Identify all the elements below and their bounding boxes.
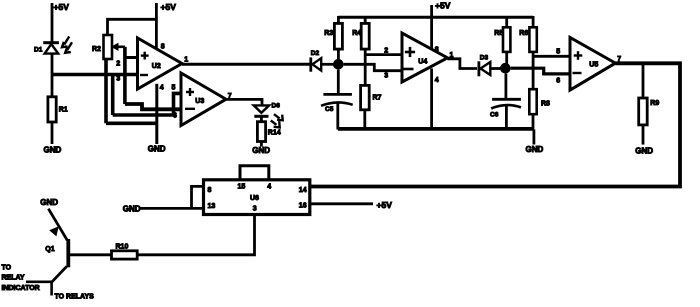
svg-text:R14: R14 — [268, 130, 281, 137]
svg-text:2: 2 — [116, 61, 120, 68]
op-amp U3 — [181, 73, 226, 126]
resistor R7 — [361, 85, 370, 109]
wiper arrow of R2 — [114, 45, 125, 48]
diode D3 — [477, 61, 480, 76]
wire to U2 pin2 — [125, 56, 137, 59]
wire U2 pin4 to GND — [155, 84, 158, 144]
wire rail stub to GND — [533, 130, 536, 145]
resistor R5 — [503, 27, 510, 52]
svg-text:4: 4 — [435, 77, 439, 84]
svg-text:5: 5 — [556, 48, 560, 55]
svg-text:D2: D2 — [311, 50, 320, 57]
wire node to U5 pin6 — [511, 68, 569, 74]
resistor R4 — [361, 23, 369, 49]
wire D3 to node — [490, 67, 501, 70]
wire V1 to GND line (H3) — [106, 122, 157, 126]
op-amp U2 — [138, 38, 183, 89]
wire node to U4 pin3 — [344, 64, 401, 70]
wire R1 to GND — [51, 122, 54, 144]
wire emitter to relay indicator — [26, 280, 53, 283]
wire D6 to R14 — [260, 116, 263, 121]
svg-text:R5: R5 — [494, 30, 503, 37]
svg-text:+5V: +5V — [54, 2, 70, 12]
svg-text:R3: R3 — [324, 30, 333, 37]
light arrows into D1 — [64, 37, 69, 45]
diode D2 — [309, 57, 312, 71]
svg-text:GND: GND — [44, 146, 62, 155]
resistor R9 — [642, 63, 645, 98]
wire V2 to U3 pin5 riser (H2) — [113, 93, 181, 115]
wire R9 to GND — [642, 125, 645, 145]
svg-text:U4: U4 — [418, 59, 427, 66]
svg-text:Q1: Q1 — [45, 246, 54, 253]
wire U4 pin4 down to rail — [430, 69, 433, 130]
IC U6 — [204, 180, 310, 215]
transistor Q1 — [48, 209, 67, 241]
wire emitter down to relays — [50, 282, 53, 296]
wire R8 to rail — [532, 114, 535, 129]
svg-text:D3: D3 — [480, 55, 489, 62]
svg-text:14: 14 — [299, 187, 307, 194]
wire V3 to U3 pin6 (H1) — [125, 104, 181, 109]
wire node to U2 pin3 (long line) — [52, 73, 137, 76]
wire D1 to R1 — [51, 54, 54, 97]
svg-text:5: 5 — [172, 85, 176, 92]
wire R5 leads — [505, 16, 508, 27]
potentiometer R2 — [104, 35, 113, 59]
wire R3 leads — [337, 16, 340, 23]
svg-text:+5V: +5V — [377, 200, 393, 210]
resistor R14 — [257, 122, 265, 142]
resistor R1 — [48, 97, 56, 122]
svg-text:15: 15 — [238, 184, 246, 191]
op-amp U5 — [570, 37, 615, 90]
svg-text:+5V: +5V — [435, 1, 451, 11]
node junction at D3 — [500, 63, 511, 74]
svg-text:GND: GND — [40, 198, 58, 207]
svg-text:R7: R7 — [373, 95, 382, 102]
wire pin16 to +5V — [310, 202, 373, 205]
svg-text:TO RELAYS: TO RELAYS — [55, 294, 95, 301]
svg-text:6: 6 — [556, 78, 560, 85]
wire U4 output to D3 — [448, 59, 478, 69]
svg-text:GND: GND — [148, 145, 166, 154]
wire R2 bottom down (V1) — [104, 59, 108, 123]
wire wiper down (V3) — [123, 47, 127, 104]
svg-text:D1: D1 — [34, 47, 43, 54]
svg-text:4: 4 — [267, 184, 271, 191]
svg-text:U5: U5 — [589, 62, 598, 69]
svg-text:INDICATOR: INDICATOR — [2, 285, 40, 292]
svg-text:8: 8 — [435, 46, 439, 53]
svg-text:3: 3 — [384, 73, 388, 80]
wire R4 top lead — [364, 16, 367, 23]
svg-text:R10: R10 — [116, 244, 129, 251]
svg-text:C5: C5 — [325, 106, 334, 113]
svg-text:GND: GND — [252, 146, 270, 155]
resistor R10 — [112, 251, 138, 259]
svg-text:8: 8 — [208, 187, 212, 194]
wire ground rail (middle) — [338, 127, 534, 131]
wire +5V to D1 — [51, 3, 54, 42]
photodiode D1 — [43, 41, 59, 44]
wire top +5V rail (middle) — [338, 16, 533, 19]
resistor R3 — [334, 23, 342, 49]
wire long line down (V2) — [111, 75, 115, 116]
svg-text:U6: U6 — [250, 195, 259, 202]
svg-text:R8: R8 — [541, 101, 550, 108]
wire +5V to U2 pin8 — [155, 3, 158, 49]
wire U2 output to D2 — [182, 63, 311, 66]
wire pin3 down and left to R10 — [137, 215, 254, 255]
wire U3 output to D6 — [226, 99, 262, 105]
svg-text:R1: R1 — [59, 107, 68, 114]
wire jumper pins 15-4 — [240, 166, 269, 180]
svg-text:R2: R2 — [92, 46, 101, 53]
svg-text:R6: R6 — [519, 30, 528, 37]
svg-text:6: 6 — [173, 113, 177, 120]
wire pin8 bracket — [192, 186, 204, 208]
svg-text:GND: GND — [123, 204, 141, 213]
wire R6 down to R8 — [532, 52, 535, 89]
wire U5 output right, down and to U6 pin14 — [310, 63, 680, 186]
wire R2 top to +5V rail — [108, 19, 157, 35]
svg-text:2: 2 — [384, 48, 388, 55]
svg-text:U3: U3 — [195, 98, 204, 105]
svg-text:TO: TO — [2, 264, 12, 271]
svg-text:16: 16 — [299, 203, 307, 210]
wire R7 to rail — [363, 110, 366, 130]
wire R10 to Q1 base — [70, 253, 112, 256]
svg-text:GND: GND — [635, 146, 653, 155]
svg-text:3: 3 — [116, 76, 120, 83]
wire GND to pin13 — [140, 207, 204, 210]
resistor R8 — [529, 89, 536, 114]
svg-text:1: 1 — [184, 57, 188, 64]
svg-text:3: 3 — [253, 206, 257, 213]
svg-text:C6: C6 — [490, 112, 499, 119]
svg-text:GND: GND — [526, 145, 544, 154]
wire D2 to node — [321, 63, 334, 66]
svg-text:D6: D6 — [272, 103, 281, 110]
svg-text:RELAY: RELAY — [2, 275, 25, 282]
wire to U5 pin5 — [533, 55, 569, 58]
svg-text:R4: R4 — [352, 30, 361, 37]
svg-text:8: 8 — [161, 44, 165, 51]
capacitor C6 — [504, 74, 507, 99]
capacitor C5 — [337, 70, 340, 94]
node junction at D2 — [333, 59, 344, 70]
wire R14 to GND — [260, 142, 263, 147]
wire R4 down to R7 — [364, 49, 367, 85]
op-amp U4 — [402, 33, 448, 82]
svg-text:R9: R9 — [650, 100, 659, 107]
light arrows out of D6 — [274, 114, 280, 118]
wire +5V down to U4 pin8 — [430, 5, 433, 48]
svg-text:U2: U2 — [152, 63, 161, 70]
svg-text:+5V: +5V — [161, 2, 177, 12]
resistor R6 — [529, 27, 536, 52]
svg-text:4: 4 — [160, 85, 164, 92]
svg-text:13: 13 — [208, 203, 216, 210]
wire rail corner down to R6 — [532, 16, 535, 27]
LED D6 — [254, 105, 269, 112]
wire R4 to U4 pin2 — [365, 53, 401, 56]
